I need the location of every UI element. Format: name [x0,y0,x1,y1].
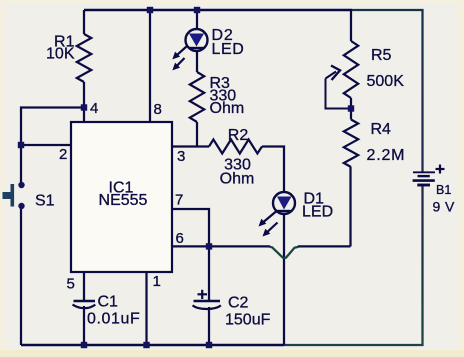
wire D2 top lead [196,10,198,29]
resistor R3 [190,72,204,122]
LED D1 [259,192,296,237]
wire D2 to R3 [196,51,198,72]
wire C1 top lead [83,272,85,300]
wire battery loop top (slate) [352,10,423,172]
node 4 [81,104,87,110]
svg-text:Ohm: Ohm [220,171,255,188]
capacitor C2 [193,290,221,309]
svg-text:V: V [445,199,455,215]
svg-text:0.01uF: 0.01uF [87,311,140,328]
svg-text:NE555: NE555 [99,192,148,209]
wire pin7 row [172,209,209,246]
node pin8/top [147,7,153,13]
svg-text:C1: C1 [98,294,119,311]
node D2/top [194,7,200,13]
node C2 rail [206,342,212,348]
resistor R1 [77,34,92,82]
wire pin3 lead [172,145,209,147]
svg-text:R4: R4 [371,121,392,138]
wire pin1 column [145,272,147,345]
svg-text:LED: LED [212,41,245,58]
wire R4 bottom lead [349,167,351,246]
wire battery loop bottom (slate) [284,186,423,346]
svg-text:LED: LED [302,204,333,221]
wire R5 top lead [350,10,352,41]
svg-text:8: 8 [154,101,162,118]
wire bottom rail navy [21,344,284,347]
potentiometer R5 [344,41,358,98]
resistor R4 [344,120,358,168]
wire C1 bottom lead [83,306,85,345]
svg-text:150uF: 150uF [225,312,271,329]
wire pin2 row [21,144,71,146]
node C1 rail [81,342,87,348]
svg-text:R2: R2 [228,127,249,144]
IC IC1 555 timer body [71,122,172,272]
wire R1 bottom lead to node 4 [83,82,85,122]
svg-text:10K: 10K [46,46,75,63]
svg-text:2.2M: 2.2M [367,147,406,164]
wire R1 top lead [83,10,85,34]
wire R2 right lead to D1 [262,147,284,193]
node pin2 [18,142,24,148]
wire top rail navy [84,9,352,11]
svg-text:3: 3 [177,148,185,165]
svg-text:2: 2 [59,146,67,163]
R5 wiper arm [326,72,352,109]
svg-text:B1: B1 [436,183,451,197]
svg-text:S1: S1 [35,193,55,210]
node R5 wiper junction [348,105,354,111]
svg-text:5: 5 [67,276,75,293]
svg-text:6: 6 [176,230,184,247]
resistor R2 [209,140,262,154]
svg-text:R5: R5 [371,47,392,64]
wire node4 to left column [21,108,84,183]
wire S1 bottom to rail [20,209,22,345]
svg-text:7: 7 [175,192,183,209]
wire D1 bottom column [283,214,285,345]
node pin1 rail [143,342,149,348]
junction node dots [18,7,354,348]
svg-text:500K: 500K [367,73,405,90]
svg-text:C2: C2 [228,295,249,312]
wire pin6 row [172,245,270,247]
svg-text:1: 1 [153,273,161,290]
wire C2 column bottom [208,307,210,345]
LED D2 [172,29,207,70]
battery B1 [413,172,435,185]
wire C2 column top [208,246,210,300]
wire pin6 row right of hop [298,245,351,247]
node pin6/pin7 [206,243,212,249]
svg-text:Ohm: Ohm [210,100,245,117]
svg-text:9: 9 [433,199,441,215]
switch S1 [3,182,25,209]
capacitor C1 [73,301,96,308]
wire hop (teal dip) [270,247,299,258]
wire pin8 column [149,10,151,122]
wire R3 bottom lead [196,122,198,147]
svg-text:4: 4 [90,100,98,117]
wire R5-R4 junction [350,98,352,120]
